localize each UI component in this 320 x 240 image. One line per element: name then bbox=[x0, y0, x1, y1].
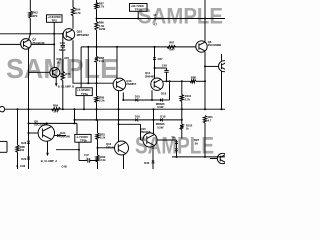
node junction bbox=[97, 160, 99, 162]
resistor R64 bbox=[71, 7, 81, 16]
wire bbox=[97, 18, 226, 20]
wire bbox=[96, 102, 98, 120]
node junction bbox=[153, 108, 155, 110]
node junction bbox=[53, 43, 55, 45]
svg-text:MPSW92: MPSW92 bbox=[77, 33, 90, 37]
wire bbox=[151, 90, 153, 100]
svg-text:56: 56 bbox=[195, 141, 199, 145]
svg-text:R87: R87 bbox=[169, 41, 174, 45]
wire bbox=[204, 19, 206, 42]
wire bbox=[72, 0, 74, 7]
wire bbox=[81, 46, 167, 48]
resistor R84 bbox=[52, 103, 61, 113]
node junction bbox=[204, 108, 206, 110]
node junction bbox=[28, 108, 30, 110]
node junction bbox=[28, 122, 30, 124]
node junction bbox=[96, 18, 98, 20]
svg-text:D30: D30 bbox=[144, 161, 149, 165]
node junction bbox=[154, 67, 156, 69]
transistor Q6 bbox=[219, 61, 230, 72]
svg-text:D19: D19 bbox=[160, 114, 166, 118]
test point TP3b bbox=[75, 134, 91, 142]
wire bbox=[152, 163, 154, 169]
node junction bbox=[151, 99, 153, 101]
svg-text:1W: 1W bbox=[20, 148, 24, 152]
capacitor C48 bbox=[155, 64, 169, 82]
svg-text:1N4148: 1N4148 bbox=[60, 135, 70, 139]
node C4B label bbox=[62, 165, 67, 169]
svg-text:4.7: 4.7 bbox=[153, 23, 157, 27]
svg-text:.022: .022 bbox=[64, 56, 70, 60]
svg-text:C49: C49 bbox=[60, 41, 66, 45]
svg-text:10: 10 bbox=[153, 13, 156, 17]
resistor R68 bbox=[95, 56, 105, 63]
transistor Q9 bbox=[145, 71, 163, 90]
wire bbox=[96, 0, 98, 3]
svg-text:Q6: Q6 bbox=[208, 40, 212, 44]
diode D30 bbox=[144, 161, 154, 166]
wire bbox=[163, 99, 169, 101]
svg-text:R82: R82 bbox=[100, 155, 105, 159]
resistor R70 bbox=[61, 71, 71, 80]
svg-text:7u47: 7u47 bbox=[169, 48, 176, 52]
svg-text:2.2k: 2.2k bbox=[100, 158, 106, 162]
transistor Q16 bbox=[106, 141, 129, 155]
wire bbox=[172, 156, 225, 158]
svg-text:MR826: MR826 bbox=[156, 102, 165, 106]
node junction bbox=[29, 33, 31, 35]
diode D16 bbox=[135, 114, 141, 121]
svg-text:TP10: TP10 bbox=[135, 8, 142, 12]
node junction bbox=[28, 132, 30, 134]
svg-text:D29: D29 bbox=[21, 157, 26, 161]
wire bbox=[29, 0, 31, 11]
transistor Q7 bbox=[21, 38, 46, 50]
node junction bbox=[87, 82, 89, 84]
wire bbox=[28, 109, 30, 141]
node junction bbox=[83, 108, 85, 110]
node junction bbox=[17, 108, 19, 110]
wire bbox=[17, 152, 19, 169]
svg-text:TP2: TP2 bbox=[52, 18, 58, 22]
transistor Q5 bbox=[196, 40, 221, 52]
wire bbox=[153, 120, 155, 133]
resistor R82 bbox=[96, 155, 106, 162]
transistor Q8 bbox=[34, 119, 55, 141]
node junction bbox=[74, 119, 76, 121]
diode D24 bbox=[54, 131, 70, 138]
svg-text:2.2k: 2.2k bbox=[99, 99, 105, 103]
svg-text:R101: R101 bbox=[185, 94, 192, 98]
wire bbox=[0, 151, 7, 153]
node junction bbox=[118, 123, 120, 125]
resistor R62 bbox=[29, 11, 39, 19]
wire bbox=[62, 47, 64, 71]
wire bbox=[29, 132, 39, 134]
diode D29 bbox=[21, 157, 30, 161]
svg-text:27k: 27k bbox=[54, 110, 59, 114]
wire bbox=[17, 109, 19, 145]
resistor R81 bbox=[96, 132, 106, 139]
svg-text:R63: R63 bbox=[208, 115, 213, 119]
diode D21 bbox=[171, 135, 178, 143]
wire bbox=[28, 143, 30, 156]
node junction bbox=[181, 80, 183, 82]
diode D27 bbox=[153, 57, 163, 61]
test point TP2 bbox=[47, 15, 63, 23]
node B_CH3 label bbox=[16, 164, 25, 168]
transistor Q13 bbox=[113, 78, 137, 91]
node junction bbox=[116, 46, 118, 48]
wire bbox=[62, 81, 64, 110]
node junction bbox=[176, 156, 178, 158]
wire bbox=[196, 80, 205, 82]
node junction bbox=[74, 108, 76, 110]
resistor R66 bbox=[95, 21, 106, 31]
node junction bbox=[96, 108, 98, 110]
node junction bbox=[166, 80, 168, 82]
wire bbox=[0, 43, 21, 45]
diode D28 bbox=[21, 141, 30, 145]
wire bbox=[53, 22, 55, 44]
diode D19 bbox=[156, 114, 166, 129]
wire bbox=[97, 140, 99, 156]
wire bbox=[140, 124, 142, 140]
wire bbox=[119, 123, 141, 125]
wire bbox=[29, 71, 50, 73]
capacitor C47 bbox=[79, 153, 98, 163]
node junction bbox=[204, 80, 206, 82]
transistor Q17 bbox=[217, 153, 227, 163]
wire bbox=[221, 72, 223, 110]
wire bbox=[28, 49, 30, 110]
wire bbox=[72, 16, 74, 29]
svg-text:0.5W: 0.5W bbox=[157, 105, 164, 109]
wire bbox=[153, 109, 155, 120]
svg-text:D16: D16 bbox=[135, 114, 141, 118]
wire bbox=[78, 142, 80, 160]
capacitor C49 bbox=[59, 33, 66, 52]
wire bbox=[46, 123, 48, 124]
wire bbox=[96, 62, 98, 96]
watermark bbox=[138, 4, 223, 29]
resistor R101 bbox=[180, 94, 192, 101]
svg-text:4.7k: 4.7k bbox=[99, 5, 105, 9]
svg-text:SAMPLE: SAMPLE bbox=[138, 4, 223, 29]
node junction bbox=[204, 18, 206, 20]
node junction bbox=[181, 119, 183, 121]
wire bbox=[76, 123, 78, 134]
node junction bbox=[53, 33, 55, 35]
node junction bbox=[221, 108, 223, 110]
svg-text:2SD857: 2SD857 bbox=[126, 82, 137, 86]
node junction bbox=[122, 99, 124, 101]
svg-text:B_CLAMP_B: B_CLAMP_B bbox=[58, 85, 74, 89]
wire bbox=[204, 0, 206, 19]
wire bbox=[118, 90, 120, 141]
wire bbox=[31, 43, 54, 45]
resistor R88 bbox=[190, 76, 196, 83]
diode D15 bbox=[135, 94, 141, 101]
svg-text:D24: D24 bbox=[60, 131, 65, 135]
diode D22 bbox=[175, 148, 178, 150]
svg-text:2.7k: 2.7k bbox=[185, 98, 191, 102]
svg-text:4.7: 4.7 bbox=[208, 118, 212, 122]
wire bbox=[96, 30, 98, 47]
svg-text:B_CLAMP_A: B_CLAMP_A bbox=[41, 159, 57, 163]
wire bbox=[152, 147, 154, 160]
wire bbox=[169, 81, 171, 100]
node junction bbox=[74, 122, 76, 124]
svg-text:1k: 1k bbox=[186, 127, 189, 131]
watermark bbox=[6, 53, 118, 84]
node junction bbox=[46, 122, 48, 124]
resistor R87 with inductor bbox=[167, 41, 176, 52]
watermark bbox=[135, 133, 214, 160]
wire bbox=[6, 141, 8, 152]
wire bbox=[138, 99, 160, 101]
node junction bbox=[97, 147, 99, 149]
wire bbox=[181, 130, 183, 139]
svg-text:D27: D27 bbox=[158, 57, 164, 61]
svg-text:1/2W: 1/2W bbox=[99, 27, 106, 31]
node junction bbox=[87, 46, 89, 48]
svg-text:2.2k: 2.2k bbox=[100, 136, 106, 140]
svg-text:TP: TP bbox=[171, 135, 175, 139]
wire bbox=[181, 102, 183, 125]
wire bbox=[204, 52, 206, 109]
node junction bbox=[204, 156, 206, 158]
transistor Q15 bbox=[141, 127, 158, 147]
wire bbox=[80, 47, 82, 88]
wire bbox=[154, 47, 156, 57]
wire bbox=[221, 54, 223, 61]
node junction bbox=[62, 108, 64, 110]
svg-text:2N6488: 2N6488 bbox=[145, 74, 155, 78]
wire bbox=[5, 108, 225, 110]
svg-text:470: 470 bbox=[32, 14, 37, 18]
wire bbox=[123, 99, 135, 101]
wire bbox=[53, 44, 55, 67]
resistor R102 bbox=[180, 123, 193, 130]
wire bbox=[210, 158, 217, 160]
node junction bbox=[153, 119, 155, 121]
node junction bbox=[96, 119, 98, 121]
wire bbox=[116, 47, 118, 78]
wire bbox=[163, 80, 190, 82]
wire bbox=[204, 123, 206, 157]
wire bbox=[29, 18, 31, 34]
node junction bbox=[153, 13, 157, 26]
wire bbox=[122, 93, 124, 101]
svg-text:D28: D28 bbox=[21, 141, 26, 145]
node junction bbox=[78, 149, 80, 151]
wire bbox=[97, 162, 99, 169]
wire bbox=[154, 59, 156, 78]
wire bbox=[96, 47, 98, 57]
resistor R85 bbox=[16, 145, 26, 153]
wire bbox=[87, 47, 89, 83]
test point TP3a bbox=[76, 88, 92, 96]
diode D18 bbox=[156, 92, 167, 110]
wire bbox=[29, 122, 78, 124]
node junction bbox=[96, 82, 98, 84]
wire bbox=[205, 65, 219, 67]
svg-text:2SC3298B: 2SC3298B bbox=[208, 43, 221, 47]
wire bbox=[98, 147, 115, 149]
wire bbox=[176, 46, 196, 48]
svg-text:R84: R84 bbox=[53, 103, 59, 107]
node junction bbox=[96, 46, 98, 48]
wire bbox=[181, 81, 183, 94]
wire bbox=[0, 140, 7, 142]
wire bbox=[123, 155, 125, 169]
svg-text:R88: R88 bbox=[191, 76, 197, 80]
wire bbox=[28, 159, 30, 169]
svg-text:B_CH3: B_CH3 bbox=[16, 164, 25, 168]
resistor R67 bbox=[95, 2, 105, 10]
node junction bbox=[169, 80, 171, 82]
node junction bbox=[154, 46, 156, 48]
wire bbox=[176, 144, 178, 149]
svg-text:D15: D15 bbox=[135, 94, 141, 98]
wire bbox=[0, 33, 63, 35]
wire bbox=[137, 11, 139, 18]
wire bbox=[56, 149, 79, 151]
svg-text:2N6488: 2N6488 bbox=[141, 130, 151, 134]
node junction bbox=[137, 18, 139, 20]
node junction bbox=[181, 108, 183, 110]
wire bbox=[138, 119, 160, 121]
test point TP10 bbox=[130, 4, 148, 12]
wire bbox=[83, 96, 85, 110]
transistor Q10 bbox=[63, 29, 89, 41]
svg-text:2.2k: 2.2k bbox=[99, 59, 105, 63]
svg-text:D18: D18 bbox=[161, 92, 167, 96]
wire bbox=[176, 151, 178, 157]
svg-text:1k: 1k bbox=[57, 60, 60, 64]
svg-text:C48: C48 bbox=[162, 64, 167, 68]
input connector J1 bbox=[0, 107, 5, 112]
node B_CLAMP_B bbox=[55, 77, 74, 89]
node B_CLAMP_A bbox=[41, 141, 57, 163]
wire bbox=[75, 119, 136, 121]
node junction bbox=[118, 119, 120, 121]
capacitor C22 label bbox=[64, 56, 70, 60]
resistor R63 bbox=[203, 115, 213, 123]
svg-text:4.7k: 4.7k bbox=[75, 11, 81, 15]
svg-text:TP3b: TP3b bbox=[80, 138, 87, 142]
node junction bbox=[204, 65, 206, 67]
wire bbox=[73, 40, 113, 83]
svg-text:R70: R70 bbox=[65, 72, 70, 76]
node junction bbox=[118, 108, 120, 110]
wire bbox=[29, 34, 31, 39]
wire bbox=[163, 119, 182, 121]
wire bbox=[141, 139, 143, 141]
resistor R80 bbox=[95, 95, 105, 102]
node R97 label bbox=[194, 138, 200, 145]
wire bbox=[74, 109, 76, 123]
wire bbox=[157, 139, 176, 141]
svg-text:0.5W: 0.5W bbox=[157, 125, 164, 129]
transistor Q11 bbox=[50, 57, 62, 77]
wire bbox=[96, 9, 98, 21]
svg-text:C4B: C4B bbox=[62, 165, 67, 169]
svg-text:TP3a: TP3a bbox=[81, 92, 88, 96]
wire bbox=[97, 120, 99, 133]
